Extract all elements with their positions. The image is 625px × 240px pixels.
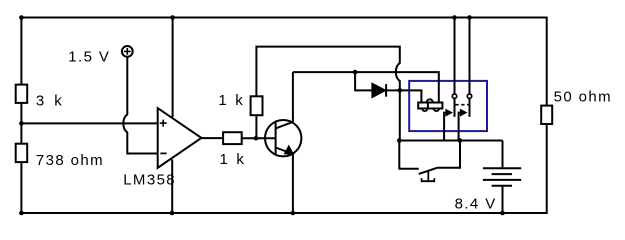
svg-text:LM358: LM358	[123, 172, 176, 189]
wire relay contact 2 post up to top rail	[469, 18, 471, 95]
wire from vertical 1 k down to base node	[255, 115, 257, 138]
relay mechanical linkage dashed line	[456, 104, 470, 106]
resistor R1 3 k	[16, 85, 28, 103]
svg-text:3 k: 3 k	[36, 93, 65, 110]
node divider midpoint junction	[19, 121, 24, 126]
svg-text:8.4 V: 8.4 V	[455, 196, 497, 213]
resistor R3 1 k horizontal (base resistor)	[223, 132, 242, 144]
node top rail contact 1 junction	[452, 15, 457, 20]
relay contact 1 stationary arm	[454, 98, 456, 116]
node collector wire diode branch junction	[353, 70, 358, 75]
relay contact 2 moving lever	[459, 113, 461, 141]
svg-text:1.5 V: 1.5 V	[68, 49, 110, 66]
op-amp U1 minus input marker	[160, 152, 166, 154]
diode D1 cathode bar	[385, 84, 387, 97]
transistor Q1 base bar	[275, 122, 277, 154]
relay contact 2 post circle	[467, 94, 471, 98]
switch S1 plunger	[422, 171, 435, 181]
svg-text:1 k: 1 k	[218, 92, 245, 109]
node bottom-left junction	[19, 211, 24, 216]
wire op-amp noninverting input from divider node	[21, 122, 157, 124]
node base junction	[254, 136, 259, 141]
transistor Q1 collector wire	[276, 72, 293, 128]
wire right side lower	[546, 124, 548, 214]
battery B1 plates	[483, 168, 521, 186]
wire left side top	[20, 17, 22, 85]
op-amp U1 output wire	[199, 137, 223, 139]
node button row left junction	[397, 138, 402, 143]
wire from diode cathode node down to button row	[399, 90, 401, 140]
op-amp U1 V+ supply pin	[172, 18, 174, 118]
node bottom rail op-amp V- junction	[170, 211, 175, 216]
wire base node	[242, 137, 276, 139]
wire left side middle	[20, 103, 22, 144]
svg-text:1 k: 1 k	[220, 151, 247, 168]
op-amp U1 V- supply pin	[171, 160, 173, 214]
svg-text:50 ohm: 50 ohm	[554, 88, 612, 105]
relay contact 1 moving lever	[444, 113, 446, 141]
wire left side bottom	[20, 162, 22, 213]
node bottom rail battery junction	[500, 211, 505, 216]
diode D1 triangle	[372, 84, 385, 97]
node button row contact 2 junction	[458, 138, 463, 143]
relay contact 2 stationary arm	[469, 98, 471, 116]
node top-left junction	[19, 15, 24, 20]
switch S1 right post wire up to row	[438, 141, 461, 168]
battery B1 wire from row down	[502, 141, 504, 169]
relay contact 1 lever arrow	[446, 109, 452, 115]
wire A from R4 top to diode cathode node with hop over collector wire	[256, 47, 399, 97]
transistor Q1 circle	[265, 120, 301, 156]
wire top rail	[21, 17, 546, 19]
resistor R4 1 k vertical	[251, 96, 263, 115]
relay contact 2 lever arrow	[460, 109, 466, 115]
voltage source V1 plus marker	[124, 48, 131, 55]
wire down-left to push button	[399, 141, 418, 169]
wire relay contact 1 post up to top rail	[454, 18, 456, 95]
voltage source V1 1.5 V circle symbol	[122, 46, 133, 57]
transistor Q1 emitter wire	[276, 148, 293, 214]
wire diode branch down from node	[355, 72, 372, 90]
transistor Q1 emitter arrow	[285, 146, 293, 154]
battery B1 wire to bottom rail	[502, 186, 504, 213]
node top rail contact 2 junction	[467, 15, 472, 20]
resistor R2 738 ohm	[16, 144, 28, 162]
node bottom rail emitter junction	[291, 211, 296, 216]
wire bottom rail	[21, 212, 546, 214]
relay contact 1 post circle	[452, 94, 456, 98]
wire B collector node to relay coil right terminal	[293, 72, 439, 102]
node top rail op-amp V+ junction	[170, 15, 175, 20]
voltage source V1 1.5 V wire down with hop over + input wire	[123, 57, 157, 154]
op-amp U1 triangle body	[158, 108, 202, 168]
resistor R5 50 ohm	[541, 106, 552, 124]
relay RL1 coil body	[427, 99, 433, 102]
node diode cathode junction	[398, 88, 403, 93]
wire right side upper	[546, 17, 548, 106]
svg-text:738 ohm: 738 ohm	[36, 152, 104, 169]
wire diode cathode to coil left terminal	[386, 90, 421, 102]
op-amp U1 plus input marker	[160, 120, 167, 127]
relay RL1 outline box	[409, 81, 487, 131]
wire button/contacts/battery row	[399, 140, 502, 142]
switch S1 push button lever	[419, 168, 438, 174]
